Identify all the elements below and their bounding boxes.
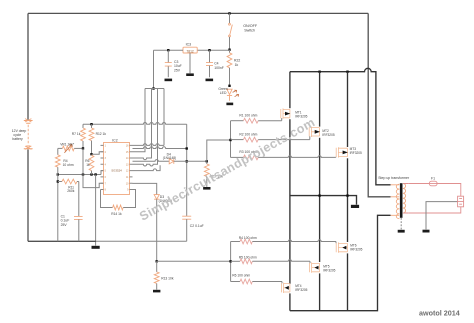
capacitor C4 100nF bbox=[209, 50, 211, 62]
transistor MT3 IRF3205 bbox=[336, 147, 348, 157]
svg-text:ON/OFF: ON/OFF bbox=[243, 24, 258, 28]
node LED top bbox=[228, 85, 230, 87]
wire rail branch to IC2 pin bbox=[83, 175, 104, 188]
wire MT6 drain bbox=[347, 253, 349, 310]
svg-text:R4 100 ohm: R4 100 ohm bbox=[239, 236, 257, 240]
ground of MOSFET source bus bbox=[351, 205, 359, 208]
potentiometer VR1 10k bbox=[58, 147, 63, 149]
svg-text:1k: 1k bbox=[235, 63, 239, 67]
resistor R13 10k pulldown bbox=[156, 261, 158, 272]
svg-text:10 ohm: 10 ohm bbox=[63, 163, 74, 167]
resistor R2 100 ohm bbox=[231, 139, 244, 141]
wire drain bus of MOSFETs MT1-MT3 to transformer primary top bbox=[290, 68, 391, 184]
wire earth to socket bbox=[426, 202, 458, 230]
ground of R13 bbox=[153, 290, 160, 293]
wire VCC bus bbox=[145, 88, 164, 90]
svg-text:IC2: IC2 bbox=[112, 139, 118, 143]
resistor R3 100 ohm bbox=[231, 156, 244, 158]
wire MT1 source / MT4 source column bbox=[289, 119, 291, 283]
wire switch to +12V rail bbox=[229, 13, 231, 23]
wire +12V feed to transformer center tap bbox=[368, 13, 390, 196]
transistor MT6 IRF3205 bbox=[336, 242, 347, 252]
socket J1 output bbox=[458, 196, 464, 207]
svg-text:R2 100 ohm: R2 100 ohm bbox=[239, 132, 257, 136]
resistor R14 1k feedback bbox=[101, 190, 113, 208]
svg-text:IRF3205: IRF3205 bbox=[323, 268, 335, 272]
wire regulator output bbox=[154, 49, 184, 51]
IC2 pin numbers bbox=[105, 146, 130, 192]
wire gate bank B bracket bbox=[230, 242, 232, 282]
svg-text:R14 1k: R14 1k bbox=[111, 212, 122, 216]
wire switch bottom bbox=[229, 37, 231, 50]
svg-text:1k: 1k bbox=[86, 163, 90, 167]
svg-text:IRF3205: IRF3205 bbox=[350, 151, 362, 155]
wire ground bus bbox=[28, 240, 96, 242]
wire VR1 right column bbox=[82, 148, 84, 174]
wire gate bank A bracket bbox=[230, 121, 232, 158]
svg-text:SG3524: SG3524 bbox=[111, 169, 122, 173]
wire regulator output down to VCC bus bbox=[153, 50, 155, 88]
wire VCC riser B bbox=[133, 89, 152, 160]
transformer T1 primary winding bbox=[396, 184, 399, 219]
svg-text:F1: F1 bbox=[431, 177, 435, 181]
svg-text:battery: battery bbox=[12, 137, 23, 141]
wire MT3 source / MT6 source column bbox=[347, 158, 349, 242]
regulator IC3 7812 bbox=[183, 47, 197, 53]
node switch top on +12V rail bbox=[228, 12, 230, 14]
ground of transformer core bbox=[400, 218, 402, 230]
svg-text:Step up transformer: Step up transformer bbox=[378, 176, 410, 180]
svg-text:Switch: Switch bbox=[244, 28, 255, 32]
wire battery positive column bbox=[27, 13, 29, 119]
battery BT1 12V deep cycle bbox=[24, 119, 33, 150]
wire +12V top rail bbox=[28, 12, 368, 14]
svg-text:IC3: IC3 bbox=[186, 43, 192, 47]
IC U2 SG3524 bbox=[104, 143, 130, 195]
IC2 pin stubs bbox=[101, 145, 133, 189]
LED D5 green bbox=[227, 89, 232, 94]
capacitor C1 0.1uF bbox=[78, 182, 80, 217]
transformer T1 core bbox=[400, 183, 403, 218]
node VR1 right bbox=[82, 147, 84, 149]
ground of C4 bbox=[206, 79, 214, 82]
transistor MT4 IRF3205 bbox=[281, 283, 290, 293]
switch S1 ON/OFF bbox=[229, 23, 231, 25]
wire rail to ground bus bbox=[95, 175, 97, 242]
svg-text:(1N4148): (1N4148) bbox=[163, 156, 176, 160]
wire gate drive A riser bbox=[207, 140, 231, 161]
svg-text:25V: 25V bbox=[174, 68, 181, 72]
svg-text:260k: 260k bbox=[67, 189, 75, 193]
ground of output earth bbox=[423, 230, 430, 233]
resistor R4 100 ohm bbox=[231, 241, 240, 243]
wire left rail bbox=[58, 174, 101, 176]
ground of C3 bbox=[165, 79, 173, 82]
fuse F1 bbox=[408, 183, 429, 185]
node VCC bus bbox=[152, 87, 154, 89]
wire gate drive B bbox=[157, 260, 231, 262]
ground of R17 bbox=[203, 187, 210, 190]
wire drain bus of MOSFETs MT4-MT6 to transformer primary bottom bbox=[290, 215, 391, 310]
resistor R11 260k bbox=[58, 181, 62, 183]
wire MT2 source / MT5 source column bbox=[319, 138, 321, 262]
node gate drive A bbox=[206, 160, 208, 162]
ground of negative bus bbox=[95, 241, 97, 245]
wire common source bus bbox=[290, 196, 357, 205]
wire VCC riser A bbox=[133, 89, 146, 152]
svg-text:R7 1k: R7 1k bbox=[72, 132, 81, 136]
transistor MT5 IRF3205 bbox=[309, 262, 319, 272]
svg-text:R12 1k: R12 1k bbox=[96, 132, 107, 136]
diode D3 1N4001 drive line bbox=[133, 183, 157, 194]
svg-text:25V: 25V bbox=[61, 223, 68, 227]
wire IC2 reference pin to C2 node bbox=[133, 147, 187, 149]
svg-text:IRF3205: IRF3205 bbox=[350, 247, 362, 251]
svg-text:R13 10k: R13 10k bbox=[161, 277, 174, 281]
resistor R22 1k bbox=[229, 50, 231, 53]
wire R7-R12 node to C2 column bbox=[83, 122, 187, 124]
svg-text:IRF3205: IRF3205 bbox=[322, 133, 334, 137]
resistor R17 10k pulldown bbox=[206, 161, 208, 164]
wire MT3 drain bbox=[347, 72, 349, 147]
wire switched +12V to regulator input bbox=[197, 49, 229, 51]
ground of LED bbox=[226, 103, 233, 106]
svg-text:R6 100 ohm: R6 100 ohm bbox=[232, 274, 250, 278]
wire MT1 drain bbox=[289, 72, 291, 109]
resistor R5 100 ohm bbox=[231, 260, 240, 262]
resistor R6b 1k timing bbox=[89, 155, 94, 170]
node switched +12V bbox=[228, 49, 230, 51]
svg-text:LED: LED bbox=[220, 91, 227, 95]
wire rail column left bbox=[57, 175, 59, 242]
wire MT2 drain bbox=[319, 72, 321, 127]
capacitor C3 10uF electrolytic bbox=[167, 50, 169, 62]
svg-text:R5 100 ohm: R5 100 ohm bbox=[239, 256, 257, 260]
svg-text:100nF: 100nF bbox=[214, 66, 224, 70]
wire MT5 drain bbox=[319, 273, 321, 310]
transistor MT1 IRF3205 bbox=[281, 108, 291, 118]
svg-text:IRF3205: IRF3205 bbox=[295, 288, 307, 292]
wire battery negative column bbox=[27, 150, 29, 242]
resistor R6 100 ohm bbox=[231, 281, 240, 283]
diode D4 1N4148 drive line bbox=[133, 160, 170, 162]
capacitor C2 0.1uF bbox=[182, 216, 191, 219]
ground of regulator IC3 bbox=[189, 53, 191, 73]
wire VCC riser D to IC2 pin 16 bbox=[163, 89, 165, 146]
wire C2 column bbox=[186, 124, 188, 216]
wire fuse to socket live bbox=[437, 184, 461, 197]
svg-text:awotol 2014: awotol 2014 bbox=[419, 308, 460, 317]
resistor R7 1k bbox=[82, 124, 84, 128]
resistor R4b 10 ohm bbox=[57, 148, 59, 154]
wire VCC riser C bbox=[133, 89, 158, 167]
svg-text:C2 0.1uF: C2 0.1uF bbox=[190, 224, 204, 228]
resistor R12 1k bbox=[91, 124, 93, 128]
svg-text:R1 100 ohm: R1 100 ohm bbox=[239, 113, 257, 117]
transformer T1 secondary winding bbox=[403, 184, 406, 214]
transistor MT2 IRF3205 bbox=[309, 127, 320, 137]
svg-text:7812: 7812 bbox=[186, 49, 194, 53]
resistor R1 100 ohm bbox=[231, 120, 244, 122]
wire R12 node to IC2 pin bbox=[92, 152, 104, 155]
node gate drive B bbox=[156, 260, 158, 262]
svg-text:VR1 10k*: VR1 10k* bbox=[60, 142, 75, 146]
wire IC2 pin elbow bbox=[133, 165, 161, 170]
wire MT4 drain bbox=[289, 293, 291, 310]
wire secondary neutral to socket bbox=[408, 207, 461, 213]
node R12 bottom bbox=[90, 153, 92, 155]
